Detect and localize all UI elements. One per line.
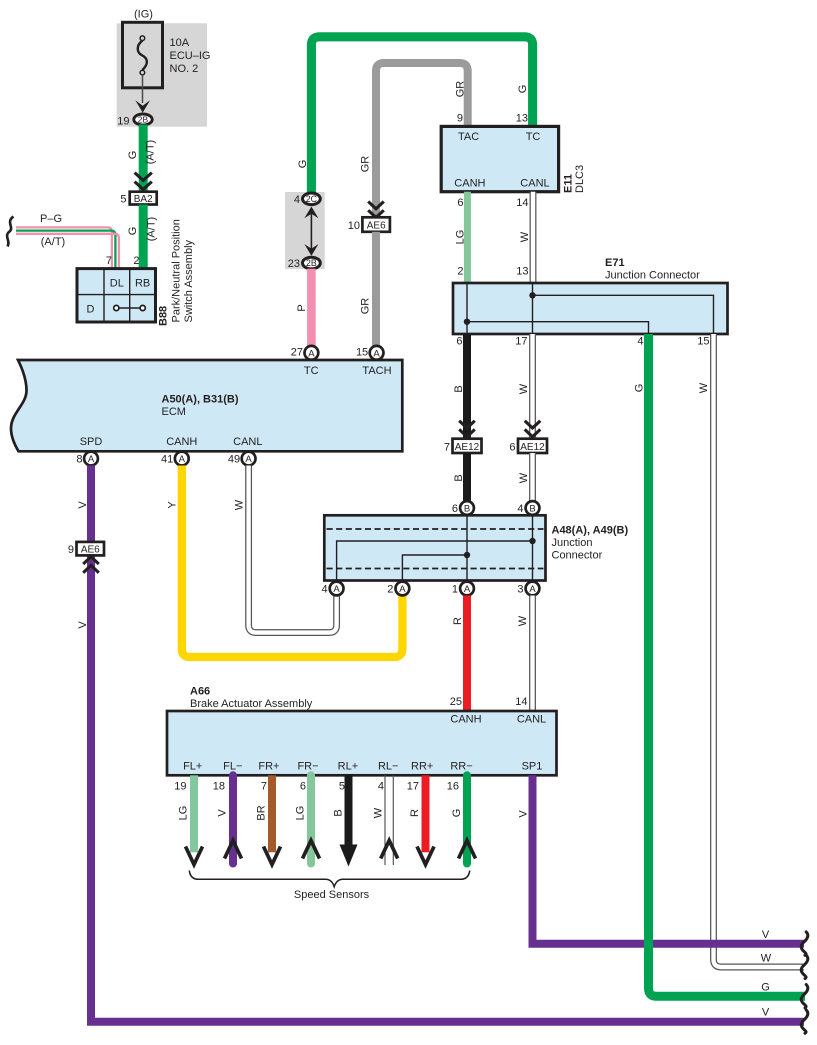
- pin 8 A (SPD): [84, 452, 98, 466]
- svg-text:Junction: Junction: [552, 537, 593, 549]
- svg-text:D: D: [87, 304, 95, 316]
- svg-text:17: 17: [407, 781, 419, 793]
- wire V from ECM SPD down and along bottom: [91, 466, 804, 1022]
- svg-text:W: W: [234, 499, 246, 510]
- svg-text:AE6: AE6: [367, 220, 386, 231]
- svg-text:(IG): (IG): [134, 9, 153, 21]
- svg-text:G: G: [127, 151, 139, 160]
- svg-text:BR: BR: [256, 805, 268, 820]
- svg-text:A: A: [399, 584, 406, 595]
- svg-text:G: G: [634, 384, 646, 393]
- svg-text:41: 41: [161, 453, 173, 465]
- svg-text:A: A: [464, 584, 471, 595]
- svg-text:B: B: [453, 474, 465, 481]
- connector 2B (pin 23): [288, 257, 321, 270]
- connector AE12 (pin 7): [444, 439, 482, 454]
- svg-text:25: 25: [450, 696, 462, 708]
- svg-text:A: A: [88, 454, 95, 465]
- svg-text:FR−: FR−: [297, 761, 318, 773]
- wire G (A/T) from 2B to BA2: [139, 125, 148, 192]
- svg-text:17: 17: [515, 336, 527, 348]
- svg-text:RR−: RR−: [450, 761, 472, 773]
- wire P-G (A/T) twisted pair to B88 pin 7: [16, 227, 119, 268]
- pin 4 B of A48: [526, 501, 540, 515]
- svg-text:Y: Y: [167, 501, 179, 509]
- connector AE12 (pin 6): [509, 439, 547, 454]
- svg-text:14: 14: [516, 197, 528, 209]
- svg-text:49: 49: [228, 453, 240, 465]
- svg-text:CANL: CANL: [520, 178, 549, 190]
- break symbol at left end of P-G pair: [7, 217, 13, 247]
- switch B88 Park/Neutral Position Switch Assembly: [77, 269, 156, 322]
- fuse 10A ECU-IG NO. 2: [123, 22, 211, 88]
- svg-text:15: 15: [356, 347, 368, 359]
- svg-text:LG: LG: [455, 230, 467, 245]
- break symbol bottom V: [801, 1010, 808, 1033]
- junction dot on W line: [529, 292, 535, 298]
- junction dot on 4B line: [529, 538, 535, 544]
- svg-text:23: 23: [288, 258, 300, 270]
- svg-text:ECU–IG: ECU–IG: [170, 50, 211, 62]
- svg-text:(A/T): (A/T): [41, 236, 65, 248]
- svg-text:4: 4: [294, 194, 300, 206]
- svg-text:Brake Actuator Assembly: Brake Actuator Assembly: [190, 698, 313, 710]
- svg-text:R: R: [452, 617, 464, 625]
- svg-text:A: A: [333, 584, 340, 595]
- svg-text:AE12: AE12: [455, 442, 480, 453]
- svg-text:SPD: SPD: [80, 436, 103, 448]
- svg-text:CANH: CANH: [166, 436, 197, 448]
- pin 4 A of A48: [330, 582, 344, 596]
- svg-text:4: 4: [637, 336, 643, 348]
- pin 41 A (CANH): [175, 452, 189, 466]
- wire G (A/T) from BA2 to B88 pin 2: [139, 205, 148, 270]
- pin 49 A (CANL): [242, 452, 256, 466]
- svg-text:B: B: [464, 504, 470, 515]
- pin 6 B of A48: [460, 501, 474, 515]
- svg-text:6: 6: [300, 781, 306, 793]
- svg-text:A: A: [308, 348, 315, 359]
- brace Speed Sensors: [189, 871, 469, 887]
- pin 3 A of A48: [526, 582, 540, 596]
- wire Y from ECM CANH to A48 pin 2A: [182, 466, 403, 658]
- svg-text:B: B: [453, 385, 465, 392]
- svg-text:GR: GR: [455, 81, 467, 98]
- svg-text:V: V: [762, 929, 770, 941]
- svg-text:2: 2: [457, 266, 463, 278]
- junction dot on LG/B line: [464, 319, 470, 325]
- svg-text:6: 6: [509, 442, 515, 454]
- svg-text:2C: 2C: [306, 194, 318, 204]
- svg-text:A: A: [245, 454, 252, 465]
- svg-text:FL−: FL−: [223, 761, 242, 773]
- svg-text:7: 7: [444, 442, 450, 454]
- svg-text:AE6: AE6: [81, 544, 100, 555]
- svg-text:FR+: FR+: [258, 761, 279, 773]
- svg-text:13: 13: [516, 113, 528, 125]
- junction connector A48(A), A49(B): [324, 515, 628, 580]
- svg-text:GR: GR: [360, 156, 372, 173]
- svg-text:4: 4: [378, 781, 384, 793]
- svg-text:13: 13: [516, 266, 528, 278]
- svg-text:E71: E71: [605, 257, 625, 269]
- junction dot on 6B line: [464, 552, 470, 558]
- pin 15 A (TACH): [370, 346, 384, 360]
- svg-text:V: V: [77, 621, 89, 629]
- ECM A50(A), B31(B): [11, 360, 402, 451]
- svg-text:TAC: TAC: [458, 131, 479, 143]
- svg-text:E11: E11: [563, 174, 575, 193]
- connector 2C (pin 4): [294, 193, 320, 206]
- svg-text:CANH: CANH: [450, 714, 481, 726]
- svg-text:G: G: [297, 160, 309, 169]
- svg-text:CANL: CANL: [233, 436, 262, 448]
- svg-text:27: 27: [291, 347, 303, 359]
- svg-text:RL+: RL+: [338, 761, 359, 773]
- wire B from E71 to AE12 and A48 pin 6B: [463, 334, 471, 439]
- svg-text:B88: B88: [158, 306, 170, 326]
- svg-text:4: 4: [321, 584, 327, 596]
- wire GR from AE6 to ECM TACH: [372, 232, 380, 347]
- svg-text:15: 15: [697, 336, 709, 348]
- svg-text:TC: TC: [304, 365, 319, 377]
- svg-text:5: 5: [339, 781, 345, 793]
- svg-text:LG: LG: [178, 806, 190, 821]
- svg-text:RB: RB: [135, 278, 150, 290]
- wire V from A66 SP1 to right: [533, 775, 805, 943]
- pin 1 A of A48: [460, 582, 474, 596]
- svg-text:B: B: [529, 504, 535, 515]
- shaded region around connectors 2C/2B: [285, 192, 325, 269]
- svg-text:Speed Sensors: Speed Sensors: [294, 889, 370, 901]
- svg-text:10: 10: [348, 220, 360, 232]
- wire G middle (to connector 2C): [311, 37, 532, 198]
- svg-text:6: 6: [456, 336, 462, 348]
- svg-text:CANL: CANL: [517, 714, 546, 726]
- wire G from E71 pin 4 to right: [649, 334, 806, 996]
- svg-text:A: A: [373, 348, 380, 359]
- wire from fuse to connector 2B: [142, 75, 144, 103]
- wire GR from top to AE6 and E11 TAC: [376, 63, 468, 217]
- svg-text:14: 14: [515, 696, 527, 708]
- svg-text:W: W: [698, 382, 710, 393]
- svg-text:P–G: P–G: [40, 213, 62, 225]
- svg-text:V: V: [518, 810, 530, 818]
- svg-text:Connector: Connector: [552, 550, 603, 562]
- junction connector E71: [453, 257, 728, 334]
- svg-text:10A: 10A: [170, 37, 190, 49]
- svg-text:6: 6: [457, 197, 463, 209]
- switch contacts: [116, 307, 142, 309]
- svg-text:9: 9: [457, 113, 463, 125]
- svg-text:2: 2: [133, 255, 139, 267]
- internal joint lines of E71: [466, 283, 468, 334]
- svg-text:19: 19: [174, 781, 186, 793]
- svg-text:P: P: [296, 304, 308, 311]
- chevron arrow on wire G: [135, 173, 152, 181]
- DLC3 E11: [441, 126, 586, 193]
- svg-text:A66: A66: [190, 686, 210, 698]
- svg-text:B: B: [333, 809, 345, 816]
- svg-text:RR+: RR+: [411, 761, 433, 773]
- arrowhead into connector 2B: [135, 100, 150, 112]
- wire P from 2B to ECM TC: [307, 269, 316, 346]
- connector 2B (pin 19): [117, 114, 152, 128]
- chevron arrow on wire B: [459, 421, 475, 428]
- svg-text:CANH: CANH: [454, 178, 485, 190]
- svg-text:A: A: [529, 584, 536, 595]
- svg-text:7: 7: [106, 255, 112, 267]
- pin 27 A (TC): [305, 346, 319, 360]
- svg-text:W: W: [517, 615, 529, 626]
- internal joint lines of A48: [466, 515, 468, 580]
- wire W from E71 pin 17 to AE12 and A48 pin 4B: [529, 334, 536, 439]
- svg-text:G: G: [451, 809, 463, 818]
- svg-text:V: V: [762, 1007, 770, 1019]
- wire W from ECM CANL to A48 pin 4A: [249, 466, 337, 633]
- svg-text:W: W: [519, 231, 531, 242]
- shaded region around fuse: [117, 23, 207, 126]
- svg-text:A50(A), B31(B): A50(A), B31(B): [162, 394, 239, 406]
- break symbol W: [801, 955, 808, 978]
- svg-text:AE12: AE12: [520, 442, 545, 453]
- svg-text:W: W: [373, 807, 385, 818]
- svg-text:9: 9: [68, 544, 74, 556]
- double arrow between 2C and 2B: [310, 210, 312, 252]
- svg-text:1: 1: [452, 584, 458, 596]
- svg-text:R: R: [409, 809, 421, 817]
- svg-text:ECM: ECM: [162, 406, 186, 418]
- connector AE6 (pin 10): [348, 217, 390, 232]
- chevron arrow on wire W: [525, 421, 541, 428]
- svg-text:6: 6: [452, 503, 458, 515]
- chevron arrow on wire GR: [368, 202, 384, 209]
- svg-text:W: W: [761, 953, 772, 965]
- brake actuator assembly A66: [167, 686, 557, 776]
- svg-text:4: 4: [517, 503, 523, 515]
- svg-text:3: 3: [517, 584, 523, 596]
- svg-text:2B: 2B: [138, 115, 149, 125]
- svg-text:2B: 2B: [306, 258, 317, 268]
- svg-text:A48(A), A49(B): A48(A), A49(B): [552, 525, 629, 537]
- svg-text:DL: DL: [110, 278, 124, 290]
- connector AE6 (pin 9) on SPD wire: [68, 542, 104, 556]
- svg-text:LG: LG: [295, 806, 307, 821]
- wire LG from E11 CANH to E71 pin 2: [464, 192, 471, 283]
- svg-text:SP1: SP1: [522, 761, 543, 773]
- svg-text:8: 8: [76, 453, 82, 465]
- svg-text:TACH: TACH: [362, 365, 391, 377]
- svg-text:18: 18: [213, 781, 225, 793]
- connector BA2 (pin 5): [120, 192, 156, 206]
- svg-text:RL−: RL−: [378, 761, 399, 773]
- svg-text:V: V: [77, 501, 89, 509]
- svg-text:W: W: [518, 472, 530, 483]
- break symbol G: [801, 985, 808, 1008]
- break symbol V: [801, 932, 808, 955]
- svg-text:5: 5: [120, 194, 126, 206]
- svg-text:FL+: FL+: [183, 761, 202, 773]
- pin 2 A of A48: [396, 582, 410, 596]
- wire R from A48 pin 1A to A66 CANH: [463, 596, 471, 712]
- svg-text:(A/T): (A/T): [145, 140, 157, 164]
- svg-text:Switch Assembly: Switch Assembly: [183, 239, 195, 322]
- svg-text:DLC3: DLC3: [574, 165, 586, 193]
- chevron arrow up on SPD wire: [83, 557, 99, 564]
- svg-text:BA2: BA2: [134, 194, 153, 205]
- svg-text:Junction Connector: Junction Connector: [605, 270, 700, 282]
- svg-text:A: A: [179, 454, 186, 465]
- svg-text:7: 7: [261, 781, 267, 793]
- svg-text:2: 2: [387, 584, 393, 596]
- wire W from E11 CANL to E71 pin 13: [530, 192, 537, 283]
- svg-text:16: 16: [447, 781, 459, 793]
- svg-text:G: G: [761, 982, 770, 994]
- wire W from A48 pin 3A to A66 CANL: [529, 596, 536, 712]
- svg-text:G: G: [517, 85, 529, 94]
- svg-text:GR: GR: [360, 298, 372, 315]
- svg-text:19: 19: [117, 116, 129, 128]
- svg-text:V: V: [217, 809, 229, 817]
- svg-text:Park/Neutral Position: Park/Neutral Position: [171, 219, 183, 322]
- svg-text:NO. 2: NO. 2: [170, 63, 199, 75]
- svg-text:G: G: [127, 227, 139, 236]
- wire W from E71 pin 15 to right: [714, 334, 805, 967]
- svg-text:(A/T): (A/T): [146, 217, 158, 241]
- svg-text:TC: TC: [526, 131, 541, 143]
- svg-text:W: W: [518, 383, 530, 394]
